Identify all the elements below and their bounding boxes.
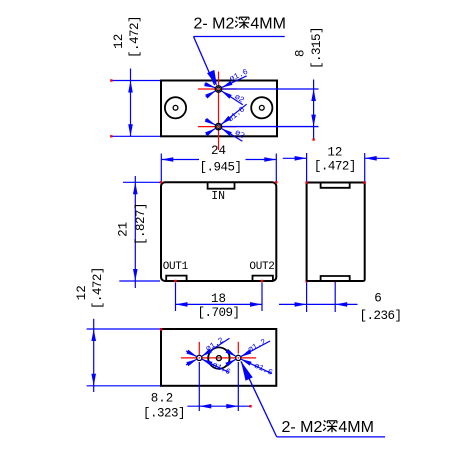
svg-text:2- M2: 2- M2 [194,16,235,33]
defpoint dim 8 [312,138,314,140]
side view outline [307,183,365,282]
svg-text:[.472]: [.472] [91,267,105,309]
dim 6 line middle [307,303,336,305]
svg-text:21: 21 [117,222,131,237]
dim 6 arrow right [335,302,347,307]
center hole (bottom view) [208,347,229,368]
dim 18 arrow right [250,302,262,307]
dim 24 ext left [160,154,162,182]
side view bottom tab [321,276,350,281]
dim 24 line left part [161,159,199,161]
leader stub left hole NW [186,351,197,357]
dim 12 bottom ext top [87,328,160,330]
svg-text:6: 6 [374,292,382,306]
leader stub hole B SW [206,128,216,134]
dim 12 left arrow down [128,124,133,136]
dim 24 arrow left [161,157,173,162]
dim 12 bottom arrow up [91,329,96,341]
leader stub left hole SW [186,359,197,365]
svg-text:8.2: 8.2 [151,391,174,405]
svg-text:[.827]: [.827] [134,203,148,245]
dim 21 arrow up [133,182,138,194]
defpoint top-left dim [110,79,112,81]
dim 24 ext right [275,154,277,182]
hole B (M2 bottom) [215,123,221,129]
leader right hole NE [241,341,270,357]
extension line hole A to dim 8 [222,88,318,90]
leader left hole SE [202,359,229,372]
leader stub right hole SW [227,359,236,364]
dim 12 right arrow right [365,156,377,161]
centerline horizontal (bottom view) [181,357,256,359]
note leader line (bottom M2) [241,361,277,437]
note underline (bottom M2) [277,436,385,438]
pin hole right (bottom view) [236,355,241,360]
dim 6 ext right [334,283,336,313]
centerline vertical through holes (top view) [218,72,220,151]
leader stub hole A NW [204,84,215,88]
svg-text:[.472]: [.472] [314,159,356,173]
note glyph shen (bottom) [323,420,337,432]
dim 18 ext left [175,283,177,312]
dim 12 right arrow left [295,156,307,161]
dim 12 right line right tail [365,157,390,159]
dim 8 arrow down [311,115,316,127]
leader hole A NE with arrow [222,76,247,88]
dim 8 arrow up [311,89,316,101]
leader stub hole A SW [206,91,216,97]
svg-text:12: 12 [112,34,126,49]
dim 8.2 ext left [198,362,200,411]
dim 12 right ext right [364,153,366,182]
pin hole left (bottom view) [197,355,202,360]
svg-text:IN: IN [211,190,225,203]
OUT2 pin tab [253,276,273,281]
centerline horizontal hole A [198,88,237,90]
svg-text:12: 12 [75,285,89,300]
dim 21 ext bottom [119,280,160,282]
dim 21 arrow down [133,269,138,281]
note leader arrow (top M2) [207,70,217,86]
dim 12 right ext left [306,153,308,182]
leader stub hole B NW [205,120,215,125]
leader hole B SE with arrow [221,128,242,141]
bottom view outline [161,329,276,386]
dim 24 arrow right [264,157,276,162]
defpoint bottom view corner [160,328,162,330]
leader left hole NE [201,338,229,356]
dim 8.2 ext right [237,362,239,411]
svg-text:[.709]: [.709] [197,306,239,320]
svg-text:[.236]: [.236] [359,309,401,323]
dim 8.2 line [187,405,250,407]
dim 8.2 arrow left [199,404,211,409]
extension line hole B to dim 8 [222,126,318,128]
svg-text:8: 8 [294,49,308,57]
defpoints front view corners [160,181,162,183]
connector J1 (left coax) [165,97,186,118]
dim 21 ext top [123,181,160,183]
leader right hole SE [241,359,272,374]
dim 12 bottom ext bottom [87,385,160,387]
centerline vertical right hole [237,342,239,354]
hole A (M2 top) [215,86,221,92]
note glyph shen (top) [235,17,249,29]
dim 24 line right part [246,159,277,161]
front view outline [161,182,276,281]
svg-text:18: 18 [211,292,226,306]
centerline vertical left hole [198,342,200,355]
defpoints side view corners [305,181,307,183]
defpoints pin tabs [174,280,176,282]
leader hole B NE with arrow [221,104,247,124]
note leader arrow (bottom M2) [241,361,253,381]
svg-text:[.472]: [.472] [128,16,142,58]
leader hole A SE with arrow [221,91,242,105]
note leader line (top M2) [194,37,215,86]
svg-text:24: 24 [211,144,226,158]
dim 18 arrow left [176,302,188,307]
dim 8.2 arrow right [226,404,238,409]
dim 12 right line left tail [283,157,307,159]
note underline (top M2) [194,36,285,38]
dim 6 arrow left [295,302,307,307]
dim 12 left line [130,69,132,137]
dim 21 line [134,176,136,288]
svg-text:2- M2: 2- M2 [282,419,323,436]
svg-text:OUT1: OUT1 [163,261,189,273]
IN pin notch [208,182,235,188]
dim 6 line right tail [335,303,357,305]
top view outline [161,81,277,137]
svg-text:OUT2: OUT2 [249,261,274,273]
dim 6 line left tail [279,303,307,305]
svg-text:12: 12 [327,146,342,160]
leader stub right hole NW [227,351,236,357]
dim 8 line [313,80,315,140]
OUT1 pin tab [166,276,186,281]
dim 12 left ext top [111,80,160,82]
dim 12 bottom arrow down [91,374,96,386]
centerline horizontal hole B [198,126,237,128]
svg-text:[.323]: [.323] [143,407,185,421]
svg-text:4MM: 4MM [250,16,286,33]
side view top tab [321,183,350,188]
defpoint dim 8.2 [249,405,251,407]
dim 12 left arrow up [128,81,133,93]
dim 18 ext right [261,283,263,312]
dim 18 line [176,303,263,305]
svg-text:4MM: 4MM [338,419,374,436]
dim 12 left ext bottom [111,135,160,137]
dim 12 bottom line [93,319,95,392]
svg-text:[.315]: [.315] [310,27,324,69]
connector J2 (right coax) [251,97,272,118]
dim 6 ext left [306,283,308,313]
svg-text:[.945]: [.945] [199,160,241,174]
